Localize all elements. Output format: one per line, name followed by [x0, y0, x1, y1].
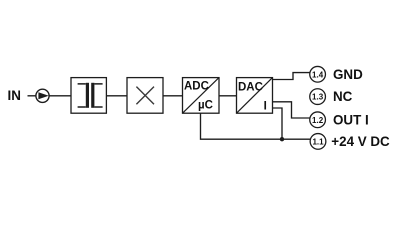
wire DAC to terminal 1.2: [273, 102, 311, 118]
svg-text:IN: IN: [8, 88, 21, 103]
DAC / output current block: [237, 78, 273, 114]
wire ADC to DAC: [219, 95, 237, 97]
svg-text:OUT I: OUT I: [333, 112, 369, 127]
transformer winding bar left: [86, 83, 89, 108]
svg-text:GND: GND: [333, 67, 363, 82]
svg-text:ADC: ADC: [184, 81, 209, 93]
wire DAC to terminal 1.4: [273, 73, 311, 80]
wire DAC to supply rail: [273, 108, 283, 139]
svg-text:1.3: 1.3: [312, 93, 324, 102]
wire ADC to +24V rail and terminal 1.1: [201, 113, 311, 139]
transformer (isolation) block: [71, 78, 106, 114]
wire transformer to multiplier: [106, 95, 127, 97]
svg-text:1.4: 1.4: [312, 70, 324, 79]
transformer winding bar right: [91, 83, 94, 108]
svg-text:I: I: [264, 100, 267, 112]
multiplier block (x): [127, 78, 163, 114]
wire multiplier to ADC: [163, 95, 183, 97]
current source symbol (input): [36, 89, 49, 102]
transformer core bracket left: [78, 84, 86, 107]
wire IN to transformer: [28, 95, 72, 97]
junction dot: [280, 137, 284, 141]
terminal 1.3: [310, 89, 326, 105]
terminal 1.1: [310, 134, 326, 150]
svg-text:NC: NC: [333, 89, 353, 104]
transformer core bracket right: [94, 84, 102, 107]
terminal 1.2: [310, 112, 326, 128]
svg-text:DAC: DAC: [238, 81, 263, 93]
svg-text:1.1: 1.1: [312, 137, 324, 146]
svg-text:1.2: 1.2: [312, 116, 324, 125]
terminal 1.4: [310, 66, 326, 82]
svg-text:+24 V DC: +24 V DC: [331, 134, 390, 149]
svg-text:µC: µC: [198, 99, 213, 111]
ADC / microcontroller block: [183, 78, 220, 114]
